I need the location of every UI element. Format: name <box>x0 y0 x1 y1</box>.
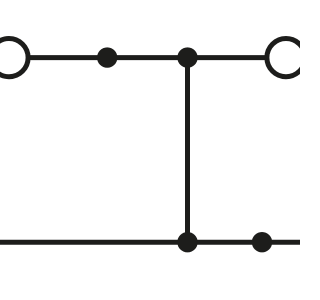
junction dot on top rail (left) <box>97 47 117 67</box>
junction dot on bottom rail (right) <box>252 232 272 252</box>
wire: bottom rail across full width <box>0 240 300 245</box>
terminal circle (right contact point), clipped at right edge <box>267 39 305 77</box>
wire: vertical bridge from top rail down to bottom rail <box>185 58 190 243</box>
wire: top rail from left terminal to right terminal <box>9 55 286 60</box>
junction dot: top rail meets vertical bridge <box>177 47 197 67</box>
terminal circle (left contact point), clipped at left edge <box>0 39 28 77</box>
junction dot: bottom rail meets vertical bridge <box>177 232 197 252</box>
